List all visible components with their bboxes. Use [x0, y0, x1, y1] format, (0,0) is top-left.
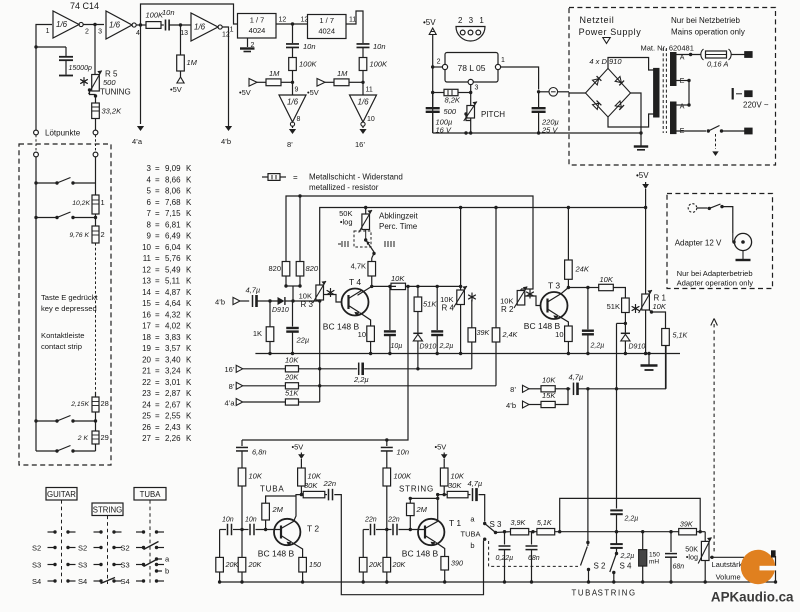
svg-text:2,87: 2,87 — [165, 389, 181, 398]
terminal 16' row input — [224, 365, 285, 374]
svg-text:K: K — [186, 220, 192, 229]
capacitor 22n T1 couple a — [363, 517, 377, 536]
fuse 0,16A — [676, 49, 745, 69]
inductor 150mH — [639, 530, 661, 584]
svg-text:1M: 1M — [269, 69, 280, 78]
svg-text:BC 148 B: BC 148 B — [258, 549, 295, 559]
adapter jack symbol — [732, 233, 751, 259]
output marker triangle — [603, 38, 610, 44]
svg-text:19: 19 — [142, 344, 151, 353]
capacitor 2,2u T3 — [582, 288, 604, 356]
svg-text:K: K — [186, 378, 192, 387]
svg-text:1 / 7: 1 / 7 — [250, 16, 265, 25]
svg-text:5,1K: 5,1K — [537, 518, 553, 527]
svg-text:28: 28 — [101, 399, 109, 408]
capacitor 4,7u input T4 — [246, 286, 261, 308]
resistor 1 10,2K — [72, 157, 104, 214]
svg-text:2,2µ: 2,2µ — [439, 343, 454, 350]
resistor 4,7K — [351, 254, 376, 277]
wire volume wiper output — [710, 556, 777, 584]
svg-text:10K: 10K — [451, 472, 465, 481]
capacitor 2,2u mix — [320, 363, 472, 384]
svg-text:1/6: 1/6 — [194, 23, 206, 32]
resistor 20K row 8' — [284, 373, 496, 389]
key strip dashed continuation — [95, 243, 97, 392]
label Nur bei Adapterbetrieb — [677, 269, 754, 288]
svg-text:9: 9 — [147, 232, 152, 241]
APKaudio.ca wordmark — [711, 590, 794, 605]
svg-text:=: = — [155, 232, 160, 241]
label Abklingzeit Perc Time — [379, 212, 418, 232]
resistor 820 second — [296, 196, 319, 276]
solder rings inside box — [34, 135, 98, 157]
terminal 8' row input — [229, 382, 286, 391]
capacitor 22u — [286, 301, 309, 355]
potentiometer 50K log volume — [685, 532, 711, 584]
wire U1B out — [136, 24, 146, 26]
svg-text:3: 3 — [475, 85, 479, 92]
wire T1 collector node — [436, 493, 447, 522]
wire cap to diode — [257, 299, 278, 302]
svg-text:T 4: T 4 — [349, 277, 361, 287]
svg-text:4,7µ: 4,7µ — [246, 286, 261, 295]
TO-92 package outline 2 3 1 — [456, 16, 486, 41]
svg-text:68n: 68n — [528, 555, 540, 562]
svg-text:2,2µ: 2,2µ — [590, 343, 605, 350]
capacitor 10n T1 input — [381, 440, 409, 468]
svg-text:4,7µ: 4,7µ — [468, 479, 483, 488]
svg-text:10: 10 — [358, 330, 366, 339]
svg-text:51K: 51K — [285, 389, 299, 398]
svg-text:4’a: 4’a — [132, 137, 143, 146]
wire 4,7K to T4 collector — [358, 276, 374, 295]
resistor 20K T2 a — [216, 530, 240, 584]
svg-text:K: K — [186, 232, 192, 241]
transformer core — [663, 48, 666, 133]
svg-text:8: 8 — [147, 220, 152, 229]
svg-text:15K: 15K — [542, 391, 556, 400]
potentiometer R2 10K — [500, 287, 534, 315]
resistor 51K T4 — [414, 286, 437, 311]
wire +5V rail to pin 2 — [431, 65, 442, 68]
svg-text:10,2K: 10,2K — [72, 200, 90, 207]
svg-text:TUBA: TUBA — [572, 589, 599, 598]
svg-text:=: = — [293, 173, 298, 182]
svg-text:4 x D 910: 4 x D 910 — [589, 57, 622, 66]
svg-text:220V ~: 220V ~ — [743, 101, 769, 110]
svg-text:29: 29 — [101, 433, 109, 442]
svg-text:TUBA: TUBA — [140, 490, 162, 499]
svg-text:4,87: 4,87 — [165, 288, 181, 297]
svg-text:13: 13 — [180, 30, 188, 37]
svg-text:K: K — [186, 243, 192, 252]
matrix contact row1 STRING — [94, 530, 122, 533]
svg-text:1/6: 1/6 — [357, 98, 369, 107]
svg-text:10: 10 — [142, 243, 151, 252]
svg-text:TUBA: TUBA — [461, 530, 481, 539]
svg-text:17: 17 — [142, 322, 151, 331]
resistor 30K T2 — [303, 481, 325, 498]
svg-text:T 3: T 3 — [548, 281, 560, 291]
resistor 39K out — [614, 520, 702, 535]
svg-text:8: 8 — [297, 116, 301, 123]
svg-text:27: 27 — [142, 434, 151, 443]
capacitor 4,7u second mix — [569, 346, 667, 396]
svg-text:b: b — [165, 567, 169, 576]
key switch row 28 — [34, 416, 97, 423]
svg-text:150: 150 — [309, 560, 321, 569]
svg-text:S2: S2 — [32, 544, 41, 553]
terminal 16' arrow — [355, 126, 367, 149]
capacitor 22n T2 out — [323, 479, 337, 500]
resistor 1M b — [334, 69, 363, 86]
svg-text:PITCH: PITCH — [481, 110, 505, 119]
svg-text:=: = — [155, 412, 160, 421]
svg-text:BC 148 B: BC 148 B — [323, 322, 360, 332]
terminal 8' arrow — [287, 126, 296, 149]
resistor 10K row second — [541, 376, 570, 392]
svg-text:Metallschicht - Widerstand: Metallschicht - Widerstand — [309, 173, 403, 182]
svg-text:10n: 10n — [303, 42, 316, 51]
matrix closed arm TUBA S3 to a — [144, 555, 171, 576]
svg-text:•5V: •5V — [423, 18, 436, 27]
resistor 2M T1 feedback — [407, 497, 438, 530]
contact strip dashed box — [19, 144, 111, 465]
svg-text:10n: 10n — [162, 8, 175, 17]
svg-text:•5V: •5V — [636, 171, 649, 180]
wire T2 collector node — [294, 495, 304, 522]
svg-text:K: K — [186, 322, 192, 331]
svg-text:S 2: S 2 — [594, 562, 607, 571]
counter U2 1/7 4024 — [230, 14, 287, 39]
svg-text:12: 12 — [142, 265, 151, 274]
svg-text:13: 13 — [142, 277, 151, 286]
svg-text:21: 21 — [142, 367, 151, 376]
svg-text:22n: 22n — [387, 517, 400, 524]
resistor 390 T1 emitter — [436, 543, 463, 584]
bottom ground rail — [220, 581, 776, 583]
label Kontaktleiste contact strip — [41, 331, 84, 351]
svg-text:K: K — [186, 198, 192, 207]
svg-text:GUITAR: GUITAR — [47, 490, 76, 499]
wire rail A collector supply — [286, 194, 533, 289]
potentiometer 500 PITCH — [443, 93, 505, 135]
svg-text:4,32: 4,32 — [165, 310, 181, 319]
svg-text:3: 3 — [147, 164, 152, 173]
svg-text:2M: 2M — [272, 505, 284, 514]
ground pin 2 of U2 — [240, 38, 255, 52]
mains plug pin lower — [745, 128, 752, 134]
svg-text:2: 2 — [437, 59, 441, 66]
wire tone bypass to volume top — [560, 498, 701, 531]
svg-text:10K: 10K — [391, 274, 405, 283]
svg-text:2,2µ: 2,2µ — [624, 516, 639, 523]
svg-text:1M: 1M — [187, 58, 198, 67]
wire diode to R3 node — [285, 299, 321, 302]
svg-text:=: = — [155, 175, 160, 184]
svg-text:7,15: 7,15 — [165, 209, 181, 218]
svg-text:2: 2 — [101, 230, 105, 239]
wire to U1C — [169, 23, 191, 26]
svg-text:4: 4 — [136, 30, 140, 37]
svg-text:4’a: 4’a — [224, 398, 235, 407]
svg-text:S4: S4 — [78, 577, 87, 586]
svg-text:7: 7 — [147, 209, 152, 218]
svg-text:10n: 10n — [397, 448, 410, 457]
svg-text:Adapter 12 V: Adapter 12 V — [675, 239, 722, 248]
svg-text:16: 16 — [142, 310, 151, 319]
svg-text:500: 500 — [103, 78, 116, 87]
svg-text:0,16 A: 0,16 A — [707, 60, 728, 69]
label Netzteil Power Supply — [579, 15, 642, 37]
svg-text:=: = — [155, 187, 160, 196]
capacitor 68n a — [526, 532, 540, 584]
svg-text:4,02: 4,02 — [165, 322, 181, 331]
diode D910 T4 clamp — [413, 312, 436, 369]
svg-text:TUNING: TUNING — [100, 88, 131, 97]
wire S4 feed from T3 — [615, 323, 618, 533]
svg-text:24K: 24K — [575, 265, 590, 274]
svg-text:3,40: 3,40 — [165, 355, 181, 364]
resistor 5,1K output — [662, 329, 689, 389]
svg-text:T 1: T 1 — [449, 518, 461, 528]
svg-text:STRING: STRING — [399, 485, 434, 494]
svg-text:6,49: 6,49 — [165, 232, 181, 241]
diode D910 T4 input — [272, 297, 289, 314]
capacitor 10n — [161, 8, 175, 31]
switch actuator dashed — [712, 134, 718, 156]
inverter U1A 1/6 — [46, 11, 89, 38]
matrix contact S 2 STRING — [78, 544, 122, 553]
svg-text:51K: 51K — [423, 300, 437, 309]
resistor 1K — [253, 301, 274, 355]
svg-text:•5V: •5V — [292, 443, 304, 452]
resistor 51K row 4'a — [285, 389, 320, 405]
resistor 820 first — [268, 262, 289, 277]
capacitor 15000p — [36, 47, 92, 76]
capacitor 10n T2 couple b — [233, 517, 281, 536]
svg-text:8’: 8’ — [229, 382, 235, 391]
svg-text:2,2µ: 2,2µ — [353, 375, 369, 384]
percussion switch dashed box — [354, 230, 371, 248]
wire U3 pin11 out — [346, 11, 363, 43]
svg-text:contact strip: contact strip — [41, 342, 82, 351]
terminal 4'b arrow — [221, 124, 232, 146]
svg-text:3,01: 3,01 — [165, 378, 181, 387]
svg-text:4’b: 4’b — [221, 137, 231, 146]
svg-text:S3: S3 — [78, 561, 87, 570]
svg-text:2 3 1: 2 3 1 — [458, 16, 486, 25]
svg-text:R 4: R 4 — [442, 304, 455, 313]
svg-text:K: K — [186, 277, 192, 286]
svg-text:=: = — [155, 378, 160, 387]
svg-text:10K: 10K — [285, 356, 299, 365]
svg-text:5: 5 — [147, 187, 152, 196]
svg-text:500: 500 — [443, 107, 456, 116]
resistor 10K T3 out — [588, 275, 626, 298]
svg-text:26: 26 — [142, 423, 151, 432]
wire T2 output under rail to S3 b — [334, 495, 483, 595]
label STRING bottom — [598, 589, 637, 598]
svg-text:33,2K: 33,2K — [102, 107, 123, 116]
svg-text:=: = — [155, 243, 160, 252]
svg-text:S2: S2 — [121, 544, 130, 553]
switch S3 voice select — [461, 515, 511, 551]
resistor 10 T4 emitter — [358, 313, 375, 355]
adapter jack ground — [736, 259, 751, 261]
resistor 10K T4 out — [391, 274, 462, 290]
+5V arrow regulator output rail — [423, 18, 436, 133]
svg-text:TUBA: TUBA — [260, 485, 285, 494]
svg-text:100K: 100K — [394, 472, 413, 481]
svg-text:K: K — [186, 412, 192, 421]
svg-text:20K: 20K — [225, 560, 240, 569]
svg-text:K: K — [186, 265, 192, 274]
capacitor 2,2u stack lower — [610, 532, 634, 560]
svg-text:=: = — [155, 310, 160, 319]
voice label box TUBA — [134, 488, 166, 501]
terminal 4'a arrow — [132, 25, 144, 146]
svg-text:•5V: •5V — [170, 85, 182, 94]
svg-text:10K: 10K — [600, 275, 614, 284]
svg-text:3,57: 3,57 — [165, 344, 181, 353]
svg-text:2: 2 — [85, 29, 89, 36]
capacitor 0,22u — [496, 532, 514, 584]
svg-text:8’: 8’ — [287, 140, 293, 149]
svg-text:1M: 1M — [337, 69, 348, 78]
terminal 8' second row — [510, 385, 541, 394]
adapter dashed box — [667, 194, 773, 289]
svg-text:15: 15 — [142, 299, 151, 308]
wire S2 feed — [586, 389, 589, 544]
svg-text:K: K — [186, 310, 192, 319]
svg-text:K: K — [186, 209, 192, 218]
svg-text:5,11: 5,11 — [165, 277, 181, 286]
svg-text:23: 23 — [142, 389, 151, 398]
svg-text:22µ: 22µ — [296, 336, 310, 345]
matrix contact S 3 TUBA — [121, 561, 165, 570]
svg-text:•5V: •5V — [239, 88, 251, 97]
svg-text:2,55: 2,55 — [165, 412, 181, 421]
svg-text:Perc. Time: Perc. Time — [379, 222, 418, 231]
resistor 24K — [565, 208, 590, 290]
svg-text:10K: 10K — [542, 376, 556, 385]
svg-text:T 2: T 2 — [307, 524, 319, 534]
svg-text:9,76 K: 9,76 K — [69, 232, 89, 239]
svg-text:24: 24 — [142, 400, 151, 409]
potentiometer R4 10K — [440, 208, 476, 356]
wire bridge to transformer primary — [608, 58, 654, 128]
bridge rectifier 4 x D910 — [586, 68, 631, 117]
svg-text:•5V: •5V — [307, 88, 319, 97]
wire bridge plus to ground — [631, 93, 643, 146]
switch S4 — [610, 552, 632, 584]
svg-text:20K: 20K — [368, 560, 383, 569]
svg-text:=: = — [155, 355, 160, 364]
percussion switch — [338, 238, 394, 255]
svg-text:820: 820 — [268, 264, 281, 273]
resistor 29 2K — [77, 412, 109, 444]
capacitor 10n T2 couple a — [220, 517, 234, 536]
svg-text:STRING: STRING — [598, 589, 637, 598]
dashed output link to adapter — [711, 319, 718, 553]
svg-text:=: = — [155, 209, 160, 218]
svg-text:10µ: 10µ — [391, 343, 403, 350]
svg-text:25: 25 — [142, 412, 151, 421]
svg-text:10: 10 — [367, 116, 375, 123]
svg-text:•log: •log — [686, 553, 698, 562]
svg-text:4’b: 4’b — [215, 298, 225, 307]
svg-text:820: 820 — [306, 264, 319, 273]
wire U1A out to U1B — [83, 23, 142, 27]
wire input rail left — [34, 25, 52, 131]
resistor 1M a — [266, 69, 293, 86]
transistor T3 BC148B — [524, 281, 568, 332]
capacitor 22n T1 couple b — [376, 517, 425, 536]
svg-text:S3: S3 — [32, 561, 41, 570]
svg-text:30K: 30K — [448, 481, 462, 490]
svg-text:1K: 1K — [253, 329, 262, 338]
svg-text:1/6: 1/6 — [109, 21, 121, 30]
wire T4 out feed to bottom section — [242, 285, 410, 442]
transformer primary winding — [654, 68, 659, 117]
svg-text:S4: S4 — [121, 577, 130, 586]
svg-text:Taste E gedrückt: Taste E gedrückt — [41, 293, 98, 302]
svg-text:=: = — [155, 367, 160, 376]
label 4 x D 910 — [589, 57, 622, 66]
svg-text:S4: S4 — [32, 577, 41, 586]
svg-text:=: = — [155, 299, 160, 308]
resistor 33,2K — [92, 95, 122, 131]
matrix contact row1 TUBA — [136, 530, 164, 533]
svg-text:22n: 22n — [364, 517, 377, 524]
matrix contact row1 GUITAR — [48, 530, 76, 533]
svg-text:5,76: 5,76 — [165, 254, 181, 263]
transistor T4 BC148B — [323, 277, 369, 332]
svg-text:2 K: 2 K — [77, 435, 89, 442]
matrix contact S 3 STRING — [78, 561, 122, 570]
svg-text:K: K — [186, 434, 192, 443]
svg-text:=: = — [155, 198, 160, 207]
svg-text:1: 1 — [46, 28, 50, 35]
svg-text:K: K — [186, 333, 192, 342]
svg-text:=: = — [155, 265, 160, 274]
metal film resistor legend symbol — [262, 173, 298, 182]
svg-text:Power Supply: Power Supply — [579, 27, 642, 37]
svg-text:9,09: 9,09 — [165, 164, 181, 173]
svg-text:R 3: R 3 — [301, 300, 314, 309]
svg-text:K: K — [186, 344, 192, 353]
terminal 4'b second row — [506, 401, 541, 410]
svg-text:4’b: 4’b — [506, 401, 516, 410]
svg-text:K: K — [186, 299, 192, 308]
svg-text:K: K — [186, 254, 192, 263]
matrix closed arm STRING S4 — [101, 578, 116, 584]
svg-text:78 L 05: 78 L 05 — [457, 63, 485, 73]
resistor 20K T1 b — [383, 530, 406, 584]
svg-text:D910: D910 — [629, 344, 646, 351]
svg-text:4,7K: 4,7K — [351, 262, 366, 271]
svg-text:39K: 39K — [680, 520, 694, 529]
wire T4 output row — [372, 285, 396, 288]
svg-text:2,43: 2,43 — [165, 423, 181, 432]
svg-text:2,4K: 2,4K — [502, 330, 519, 339]
svg-text:=: = — [155, 389, 160, 398]
svg-text:K: K — [186, 355, 192, 364]
ground symbol power supply — [634, 147, 648, 150]
svg-text:100K: 100K — [370, 60, 389, 69]
+5V arrow source b — [307, 79, 334, 98]
